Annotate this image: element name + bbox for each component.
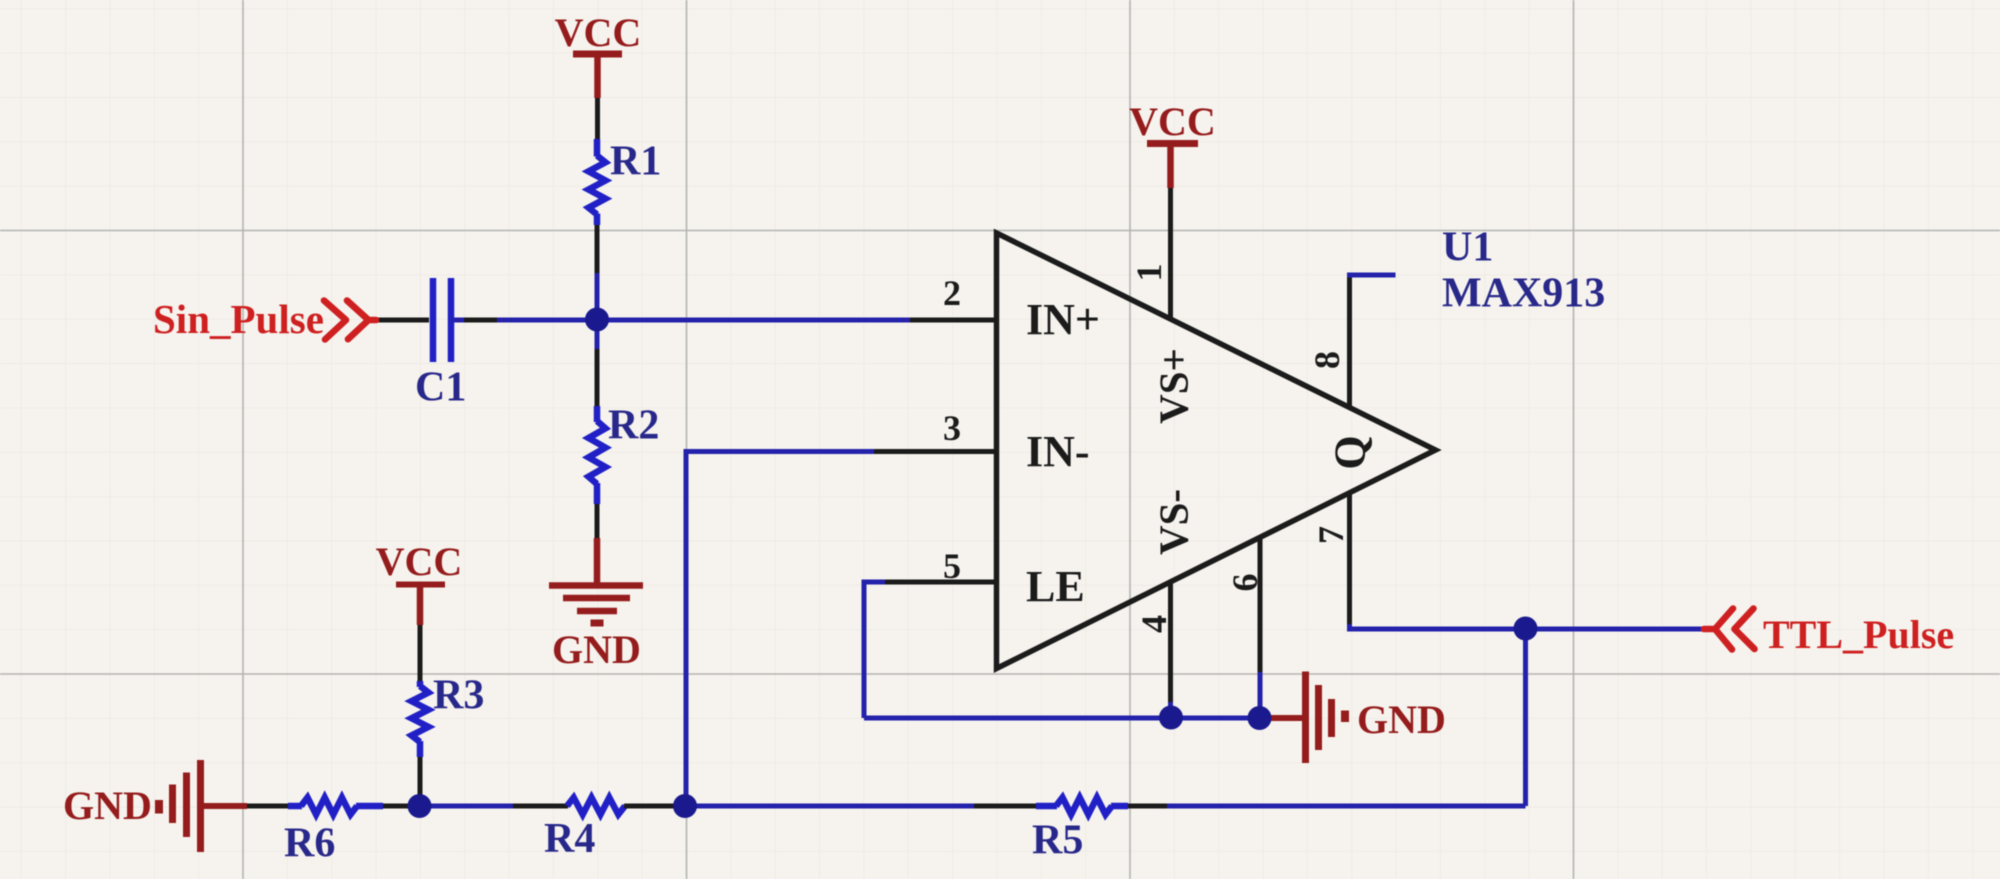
svg-text:TTL_Pulse: TTL_Pulse: [1763, 612, 1954, 657]
svg-text:U1: U1: [1442, 225, 1493, 271]
svg-text:VS+: VS+: [1151, 348, 1197, 424]
svg-text:5: 5: [943, 546, 961, 586]
svg-text:2: 2: [943, 273, 961, 313]
svg-text:1: 1: [1129, 264, 1169, 282]
svg-text:VS-: VS-: [1151, 489, 1197, 555]
svg-text:Q: Q: [1326, 435, 1375, 469]
svg-text:Sin_Pulse: Sin_Pulse: [153, 296, 324, 342]
svg-text:IN-: IN-: [1026, 427, 1090, 476]
svg-text:R5: R5: [1032, 818, 1083, 864]
svg-text:IN+: IN+: [1026, 295, 1100, 344]
svg-text:3: 3: [943, 408, 961, 448]
svg-text:4: 4: [1134, 615, 1174, 633]
svg-text:R3: R3: [433, 673, 484, 719]
svg-text:R4: R4: [544, 816, 595, 862]
svg-text:R2: R2: [608, 403, 659, 449]
svg-text:C1: C1: [415, 365, 466, 411]
svg-text:VCC: VCC: [1129, 99, 1216, 144]
svg-text:6: 6: [1225, 574, 1265, 592]
svg-text:VCC: VCC: [376, 539, 463, 584]
svg-text:R6: R6: [284, 821, 335, 867]
svg-text:R1: R1: [610, 139, 661, 185]
svg-text:LE: LE: [1026, 562, 1085, 611]
svg-text:GND: GND: [1357, 697, 1446, 742]
svg-text:7: 7: [1311, 526, 1351, 544]
svg-text:8: 8: [1307, 351, 1347, 369]
svg-text:GND: GND: [63, 783, 152, 828]
svg-text:VCC: VCC: [555, 10, 642, 55]
svg-text:GND: GND: [552, 627, 641, 672]
svg-text:MAX913: MAX913: [1442, 271, 1605, 317]
